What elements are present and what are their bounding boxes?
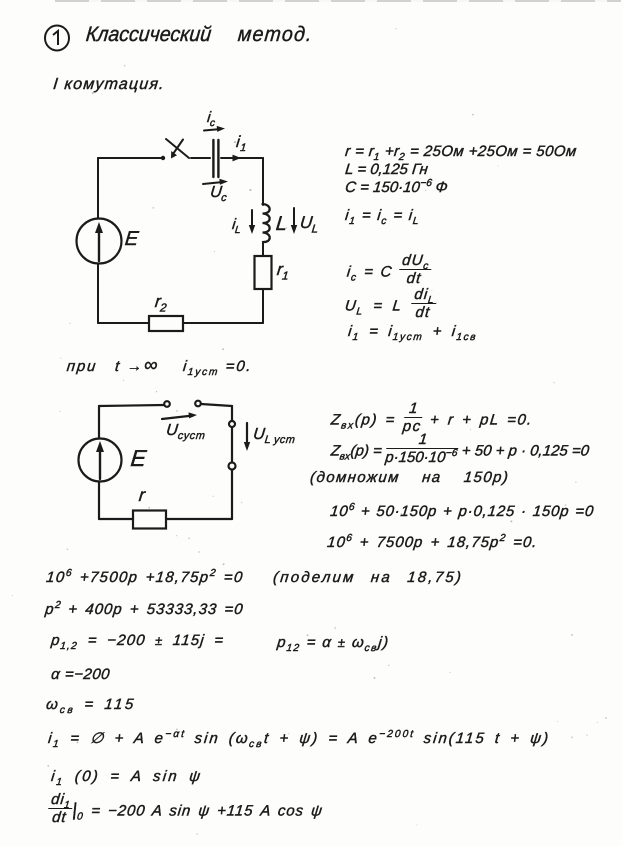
terminal node upper	[229, 421, 235, 427]
label E circuit1	[124, 229, 139, 249]
capacitor C1 plates	[213, 140, 218, 177]
open terminal left	[164, 401, 170, 407]
source E circle	[79, 439, 122, 482]
voltage arrow UL down	[291, 208, 297, 234]
label r1	[276, 261, 290, 278]
current arrow ic above capacitor	[204, 126, 225, 132]
wire bottom right segment	[166, 518, 232, 520]
wire right side upper	[262, 158, 264, 205]
wire top left segment	[99, 405, 164, 406]
wire top right segment	[201, 404, 232, 406]
label L	[275, 214, 288, 234]
label r circuit2	[138, 486, 146, 504]
open terminal right	[195, 401, 201, 407]
label i1	[235, 135, 248, 151]
label UL-ust	[252, 427, 296, 443]
inductor L coil	[263, 204, 270, 242]
wire resistor to bottom-right corner	[262, 289, 264, 323]
title row	[85, 24, 212, 45]
voltage arrow UL-ust down	[244, 423, 250, 451]
wire switch to capacitor	[191, 157, 210, 159]
wire bottom left segment	[98, 322, 149, 324]
label r2	[154, 293, 168, 310]
resistor R2 body	[149, 316, 183, 331]
bottom equations	[45, 570, 244, 585]
wire bottom left segment	[99, 518, 133, 520]
circled 1	[42, 24, 74, 56]
resistor r body	[133, 511, 166, 529]
node junction dot	[161, 156, 165, 160]
section label	[52, 77, 165, 93]
label Uc	[209, 185, 228, 201]
source E circle	[77, 219, 122, 264]
voltage arrow Uc-ust	[162, 412, 197, 419]
wire capacitor to top-right corner with current arrow i1	[221, 155, 263, 162]
source E arrow	[96, 441, 104, 479]
source E arrow	[95, 222, 103, 261]
terminal node lower	[229, 463, 236, 470]
wire left side	[97, 158, 99, 323]
wire inductor to resistor	[262, 242, 264, 256]
label E circuit2	[130, 447, 148, 470]
label UL	[299, 214, 319, 231]
wire left side	[98, 406, 100, 519]
label iL	[231, 217, 242, 232]
note line	[66, 356, 254, 375]
current arrow iL down	[249, 210, 255, 234]
wire top-left segment	[98, 157, 162, 159]
label ic	[206, 110, 216, 125]
switch S1 open blade with cross	[166, 139, 189, 159]
equations block 1 (right of circuit 1)	[344, 144, 577, 159]
label Uc-ust	[165, 423, 206, 439]
equations block 2 (right of circuit 2)	[330, 401, 535, 434]
wire bottom right segment	[183, 322, 263, 324]
scan artifact: gray strip at top edge	[55, 0, 621, 2]
voltage arrow Uc below capacitor	[203, 179, 228, 185]
resistor R1 body	[255, 256, 272, 289]
wire right side	[231, 406, 233, 519]
